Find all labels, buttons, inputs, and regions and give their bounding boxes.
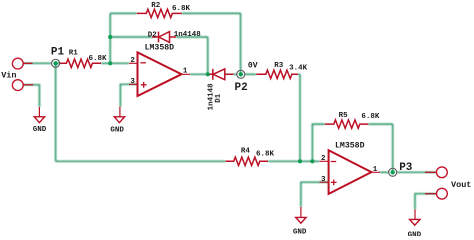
ground Vout- lead	[414, 210, 416, 220]
svg-text:R5: R5	[339, 112, 349, 120]
wire op-amp U2 output to P3	[380, 171, 389, 173]
svg-text:GND: GND	[33, 126, 47, 134]
wire R3 drop to bottom rail	[299, 74, 301, 161]
ground op-amp U1 symbol	[114, 117, 124, 123]
wire P1 drop	[55, 63, 57, 161]
resistor R3	[256, 70, 298, 78]
svg-text:GND: GND	[110, 127, 124, 135]
wire R5 drop to P3	[392, 124, 394, 172]
ground Vin- symbol	[34, 117, 44, 123]
wire R3 to corner	[298, 73, 300, 75]
wire op-amp U2 pin 3 to ground	[301, 182, 329, 207]
svg-text:2: 2	[321, 155, 326, 163]
terminal Vin+ pin	[23, 62, 33, 64]
junction dot R3 on bottom rail	[298, 159, 302, 163]
wire R5 branch vertical	[312, 124, 324, 161]
svg-text:0V: 0V	[248, 62, 258, 71]
junction dot D2 tap	[108, 35, 112, 39]
svg-text:3.4K: 3.4K	[289, 65, 308, 73]
svg-text:6.8K: 6.8K	[89, 55, 108, 63]
svg-text:D1: D1	[215, 93, 223, 103]
wire R4 to op-amp U2 pin 2	[268, 160, 320, 162]
resistor R5	[325, 120, 369, 128]
op-amp U2 pin stubs	[320, 161, 380, 182]
terminal Vin+	[12, 58, 23, 69]
ground Vin- lead	[38, 107, 40, 117]
svg-text:P3: P3	[399, 162, 413, 174]
ground op-amp U2 lead	[300, 207, 302, 217]
svg-text:D2: D2	[148, 31, 158, 39]
wire feedback vertical	[109, 13, 111, 63]
wire P3 to Vout+	[397, 171, 437, 173]
terminal Vout+ pin	[425, 171, 437, 173]
wire Vin- to ground	[23, 85, 40, 107]
op-amp U1 minus	[140, 62, 146, 64]
op-amp U1 plus	[141, 82, 147, 88]
svg-text:R2: R2	[151, 2, 161, 10]
op-amp U1 pin stubs	[129, 63, 190, 84]
svg-text:GND: GND	[408, 232, 422, 236]
wire R5 to corner	[368, 123, 392, 125]
wire D2 drop to output rail	[207, 37, 209, 74]
svg-text:3: 3	[321, 176, 326, 184]
wire Vout- to ground	[415, 194, 437, 210]
wire op-amp U1 pin 3 to ground	[120, 84, 137, 106]
svg-text:GND: GND	[293, 229, 307, 236]
terminal Vin- pin	[23, 84, 33, 86]
svg-text:R3: R3	[274, 62, 284, 70]
junction dot R5 branch	[310, 159, 314, 163]
terminal Vout-	[437, 188, 448, 199]
terminal Vout+	[437, 167, 448, 178]
svg-text:6.8K: 6.8K	[172, 5, 191, 13]
svg-text:1n4148: 1n4148	[174, 31, 202, 39]
wire P1 to R1	[56, 62, 61, 64]
svg-text:3: 3	[130, 78, 135, 86]
wire op-amp U1 output to D1	[190, 73, 210, 75]
wire P2 to R3	[245, 73, 256, 75]
svg-text:P1: P1	[51, 46, 65, 58]
svg-text:1: 1	[373, 166, 378, 174]
node P3	[389, 168, 397, 176]
ground op-amp U1 lead	[119, 107, 121, 117]
svg-text:Vin: Vin	[1, 70, 16, 80]
diode D2	[152, 32, 176, 43]
junction dot feedback/pin2	[108, 61, 112, 65]
op-amp U2 plus	[331, 180, 337, 186]
svg-text:Vout: Vout	[451, 180, 471, 190]
svg-text:R1: R1	[69, 49, 79, 57]
resistor R1	[60, 59, 101, 67]
wire R1 to op-amp U1 pin 2	[101, 62, 129, 64]
op-amp U2 minus	[331, 161, 337, 163]
wire Vin+ to P1	[23, 62, 52, 64]
svg-text:6.8K: 6.8K	[256, 151, 275, 159]
wire R2 top rail right	[182, 12, 241, 14]
resistor R4	[226, 157, 269, 165]
svg-text:LM358D: LM358D	[145, 44, 175, 53]
wire R2 top rail left	[110, 12, 137, 14]
junction dot D2 drop on output rail	[206, 72, 210, 76]
resistor R2	[137, 9, 182, 17]
op-amp U1	[138, 52, 182, 96]
terminal Vin-	[12, 80, 23, 91]
op-amp U2	[329, 150, 372, 194]
wire D1 to P2	[234, 73, 238, 75]
wire D2 row left	[110, 36, 152, 38]
wire D2 row right	[176, 36, 208, 38]
wire R2 drop to P2	[240, 13, 242, 74]
svg-text:2: 2	[130, 57, 135, 65]
svg-text:P2: P2	[235, 82, 248, 94]
ground Vout- symbol	[410, 219, 420, 225]
svg-text:6.8K: 6.8K	[361, 113, 380, 121]
svg-text:R4: R4	[241, 147, 251, 155]
wire bottom rail to R4	[56, 160, 226, 162]
node P2	[237, 70, 245, 78]
svg-text:1: 1	[183, 67, 188, 75]
diode D1	[210, 69, 234, 80]
ground op-amp U2 symbol	[296, 217, 306, 223]
node P1	[52, 59, 60, 67]
svg-text:LM358D: LM358D	[335, 142, 365, 151]
terminal Vout- pin	[425, 193, 437, 195]
